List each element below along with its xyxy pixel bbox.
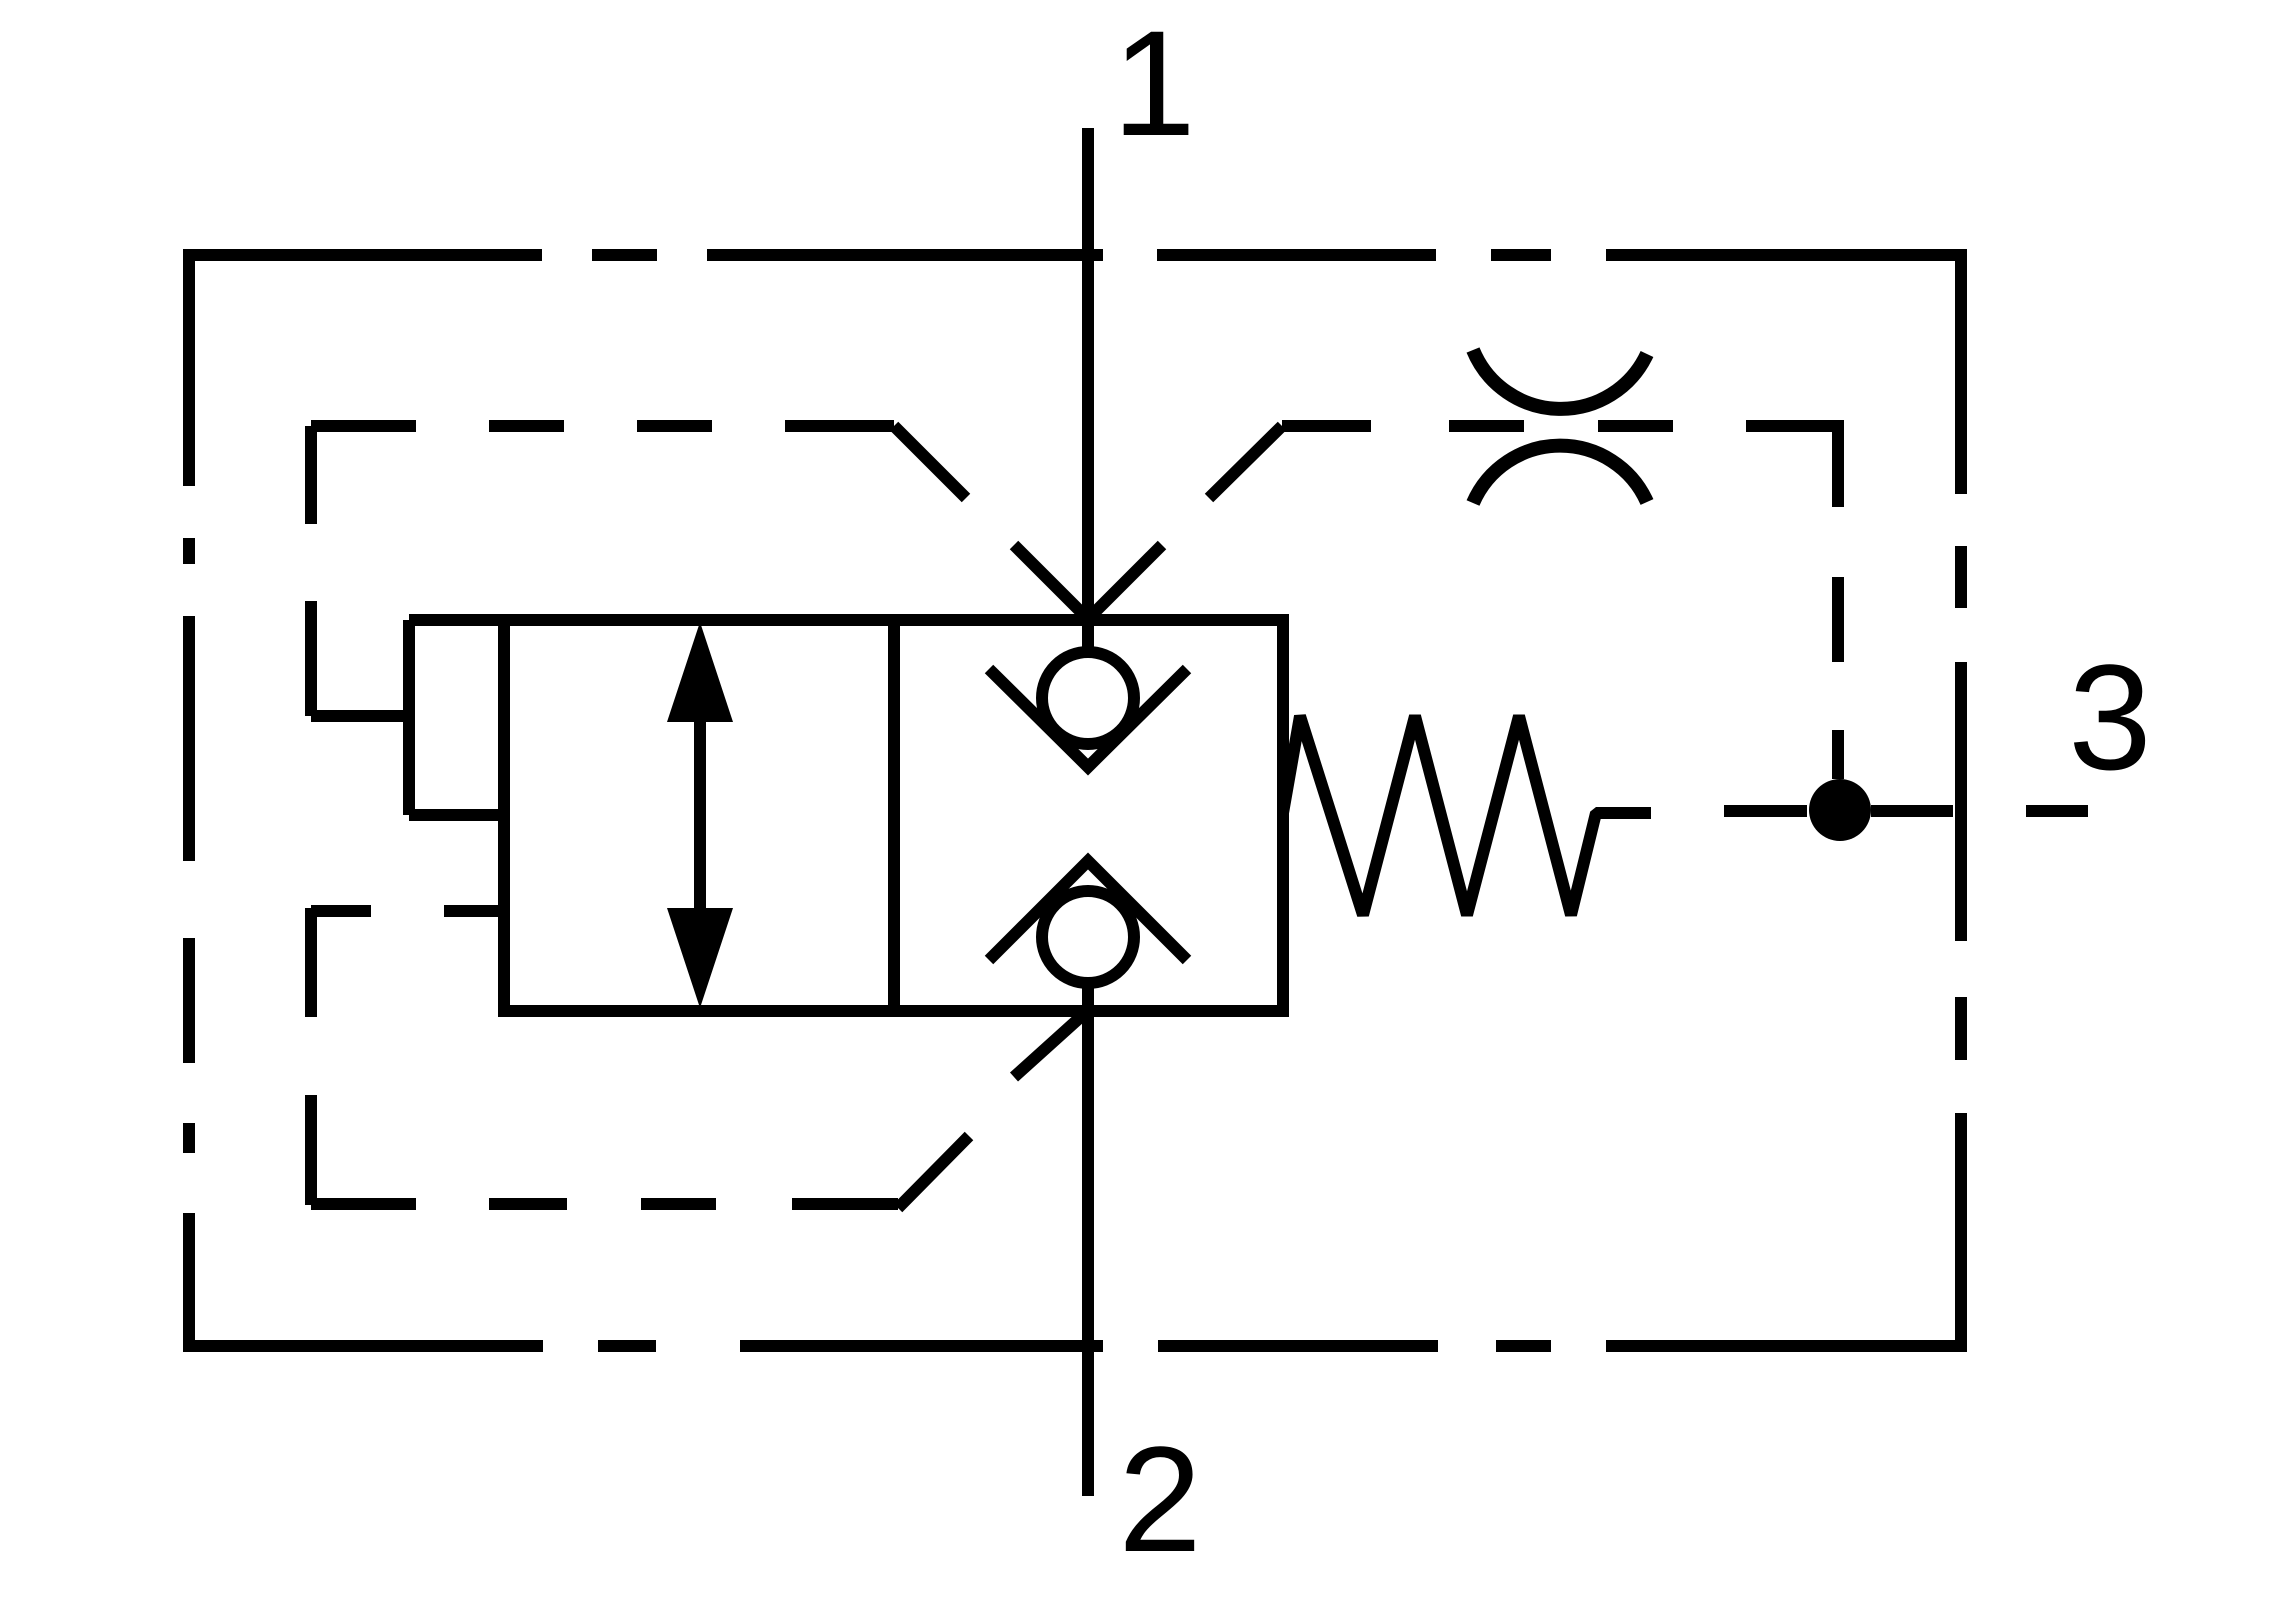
svg-text:2: 2 xyxy=(1118,1415,1201,1583)
svg-text:1: 1 xyxy=(1112,0,1195,167)
svg-text:3: 3 xyxy=(2068,633,2151,801)
